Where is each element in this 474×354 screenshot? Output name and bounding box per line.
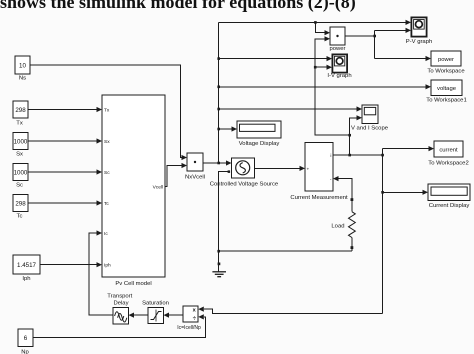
svg-text:Tc: Tc — [104, 201, 109, 207]
arrow into P-V graph input 1 — [406, 20, 412, 25]
wire Tc to Pv Cell model — [28, 202, 97, 204]
display block Voltage Display — [237, 121, 281, 147]
input arrow Tx — [97, 107, 103, 112]
wire current to I-V graph input 2 — [315, 66, 326, 68]
svg-text:Tx: Tx — [16, 120, 23, 126]
svg-text:Load: Load — [331, 224, 344, 230]
arrow into Current Measurement electrical terminal — [333, 176, 339, 181]
ground symbol — [212, 272, 226, 277]
wire voltage to To Workspace1 — [219, 86, 426, 88]
saturation block — [142, 301, 169, 324]
constant Sx value 1000 — [13, 133, 28, 158]
wire voltage to Voltage Display — [219, 128, 232, 130]
input arrow Sx — [97, 138, 103, 143]
svg-text:Ns: Ns — [19, 75, 26, 81]
To Workspace block power — [427, 51, 465, 75]
svg-text:Ic=Icell/Np: Ic=Icell/Np — [177, 325, 201, 331]
node current left branch junction — [348, 134, 351, 137]
arrow into NxVcell input 1 — [182, 155, 188, 160]
svg-text:Iph: Iph — [22, 276, 30, 282]
wire Ns to NxVcell input 1 — [30, 65, 182, 158]
block Current Measurement — [290, 143, 348, 201]
svg-text:1.4517: 1.4517 — [17, 262, 36, 269]
node scope branch junction — [348, 154, 351, 157]
arrow into Saturation — [164, 313, 170, 318]
CVS minus terminal pad — [228, 170, 231, 173]
ground terminal pad — [218, 263, 221, 266]
arrow into V and I Scope input 1 — [357, 106, 363, 111]
svg-text:voltage: voltage — [437, 86, 457, 92]
svg-text:+: + — [307, 167, 310, 172]
wire current to Current Display — [383, 191, 423, 193]
svg-text:NxVcell: NxVcell — [185, 175, 205, 181]
To Workspace1 block voltage — [426, 80, 467, 103]
product block NxVcell — [185, 153, 205, 181]
wire Sx to Pv Cell model — [28, 140, 97, 142]
input arrow Ic — [97, 230, 103, 235]
node Current Display junction — [381, 191, 384, 194]
svg-text:Sc: Sc — [16, 183, 23, 189]
wire voltage stub to power input 1 — [315, 22, 324, 32]
svg-text:current: current — [439, 147, 458, 153]
wire voltage to P-V graph input 1 — [219, 21, 406, 23]
input arrow Tc — [97, 200, 103, 205]
svg-text:1000: 1000 — [14, 138, 28, 145]
wire Current Measurement electrical to Load — [339, 179, 352, 252]
arrow into I-V graph input 1 — [327, 56, 333, 61]
subsystem Pv Cell model — [102, 95, 165, 287]
arrow into power input 1 — [325, 30, 331, 35]
constant Ns value 10 — [15, 56, 30, 81]
svg-text:power: power — [329, 46, 345, 52]
svg-text:Sx: Sx — [16, 152, 23, 158]
svg-text:Sx: Sx — [104, 139, 110, 145]
svg-text:Controlled Voltage Source: Controlled Voltage Source — [210, 182, 279, 188]
arrow into divider input 1 — [198, 307, 204, 312]
wire NxVcell output to Controlled Voltage Source — [203, 162, 227, 164]
controlled voltage source U1 — [210, 158, 279, 188]
arrow into NxVcell input 2 — [182, 163, 188, 168]
wire Vcell output to NxVcell input 2 — [165, 166, 182, 187]
product block power — [329, 27, 345, 52]
arrow into I-V graph input 2 — [327, 65, 333, 70]
divider block Ic=Icell/Np — [177, 306, 201, 331]
wire current branch to power and I-V — [315, 39, 350, 135]
arrow into divider input 2 — [198, 314, 204, 319]
svg-text:Tc: Tc — [17, 214, 23, 220]
wire voltage bus vertical — [218, 22, 220, 163]
svg-text:power: power — [438, 57, 454, 63]
svg-text:Sc: Sc — [104, 170, 110, 176]
wire Current Measurement signal output — [333, 154, 383, 156]
svg-text:10: 10 — [19, 62, 26, 69]
wire current to To Workspace2 — [383, 148, 429, 150]
svg-text:Delay: Delay — [113, 301, 128, 307]
arrow into V and I Scope input 2 — [357, 115, 363, 120]
svg-text:To Workspace: To Workspace — [427, 69, 465, 75]
wire current to V and I Scope input 2 — [350, 118, 357, 155]
load terminal pad bottom — [351, 246, 354, 249]
node power output junction — [373, 35, 376, 38]
arrow into power input 2 — [325, 36, 331, 41]
svg-text:Ic: Ic — [104, 231, 108, 237]
wire CVS output to Current Measurement — [255, 167, 300, 169]
svg-text:Pv Cell model: Pv Cell model — [115, 281, 151, 287]
arrow into To Workspace1 — [426, 84, 432, 89]
svg-text:I-V graph: I-V graph — [327, 73, 351, 79]
svg-text:Vcell: Vcell — [153, 184, 163, 190]
node power tap junction — [314, 21, 317, 24]
arrow into Transport Delay — [129, 313, 135, 318]
svg-text:Saturation: Saturation — [142, 301, 169, 307]
wire voltage to V and I Scope input 1 — [219, 108, 357, 110]
arrow into CVS signal input — [226, 160, 232, 165]
node I-V input 2 junction — [314, 66, 317, 69]
arrow into Current Measurement input — [300, 166, 306, 171]
wire current feedback to divider input 1 — [204, 309, 383, 313]
wire CVS minus to ground — [219, 172, 230, 272]
wire Tx to Pv Cell model — [28, 109, 97, 111]
node Voltage Display tap junction — [217, 128, 220, 131]
svg-text:Iph: Iph — [104, 263, 111, 269]
wire Iph to Pv Cell model — [40, 264, 97, 266]
node current bus junction — [381, 154, 384, 157]
svg-text:Current Measurement: Current Measurement — [290, 195, 348, 201]
arrow into Current Display — [423, 190, 429, 195]
wire Sc to Pv Cell model — [28, 171, 97, 173]
svg-text:Transport: Transport — [107, 293, 132, 299]
node To Workspace1 tap junction — [217, 86, 220, 89]
XY graph block I-V graph — [327, 54, 351, 78]
transport delay block — [107, 293, 132, 324]
svg-text:Np: Np — [21, 349, 29, 354]
input arrow Sc — [97, 169, 103, 174]
wire Saturation output to Transport Delay — [134, 314, 148, 316]
svg-text:298: 298 — [15, 107, 26, 114]
arrow into Voltage Display — [232, 126, 238, 131]
wire divider output to Saturation — [169, 314, 183, 316]
svg-text:To Workspace2: To Workspace2 — [428, 161, 469, 167]
svg-text:6: 6 — [24, 335, 28, 342]
resistor Load — [331, 212, 355, 238]
XY graph block P-V graph — [406, 17, 433, 44]
node I-V tap junction — [217, 57, 220, 60]
display block Current Display — [428, 184, 470, 209]
node ground return junction — [217, 250, 220, 253]
svg-text:To Workspace1: To Workspace1 — [426, 97, 467, 103]
constant Tc value 298 — [13, 195, 28, 220]
svg-text:1000: 1000 — [14, 169, 28, 176]
svg-text:Voltage Display: Voltage Display — [239, 141, 280, 147]
To Workspace2 block current — [428, 141, 469, 167]
input arrow Iph — [97, 262, 103, 267]
svg-text:Current Display: Current Display — [429, 203, 470, 209]
svg-text:i: i — [330, 153, 331, 159]
load terminal pad top — [351, 198, 354, 201]
constant Tx value 298 — [13, 101, 28, 126]
node voltage junction on NxVcell output — [217, 162, 220, 165]
constant Np value 6 — [18, 329, 33, 354]
arrow into P-V graph input 2 — [406, 28, 412, 33]
constant Iph value 1.4517 — [13, 255, 40, 282]
wire Np to divider lower input — [33, 317, 205, 337]
node scope tap junction — [217, 108, 220, 111]
wire power output split — [345, 30, 426, 58]
svg-text:P-V graph: P-V graph — [406, 39, 433, 45]
wire voltage to I-V graph input 1 — [219, 58, 327, 60]
constant Sc value 1000 — [13, 164, 28, 189]
arrow into To Workspace power — [426, 56, 432, 61]
wire Transport Delay output feedback to Ic input — [89, 233, 113, 315]
svg-text:Tx: Tx — [104, 107, 110, 113]
svg-text:298: 298 — [15, 200, 26, 207]
svg-text:shows the simulink model for e: shows the simulink model for equations (… — [0, 0, 356, 13]
arrow into To Workspace2 — [429, 146, 435, 151]
scope block V and I Scope — [351, 105, 389, 132]
wire load return to ground junction — [219, 250, 352, 252]
svg-text:V and I Scope: V and I Scope — [351, 126, 389, 132]
wire current bus vertical — [382, 149, 384, 314]
